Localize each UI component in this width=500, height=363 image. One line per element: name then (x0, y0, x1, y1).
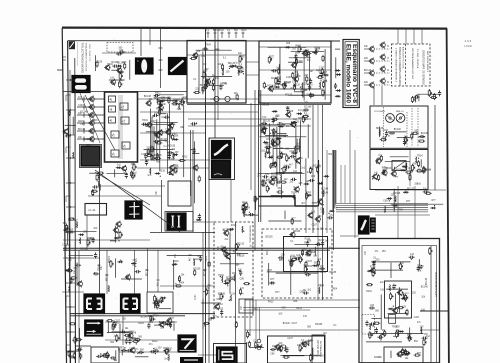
svg-text:C.I. 884 - 02 REV A: C.I. 884 - 02 REV A (416, 49, 419, 69)
svg-text:TR04: TR04 (213, 78, 219, 80)
svg-text:C89: C89 (208, 319, 213, 321)
svg-text:15V: 15V (281, 255, 286, 257)
svg-text:TR04: TR04 (398, 209, 404, 211)
svg-text:BD135: BD135 (266, 237, 274, 239)
svg-text:R216: R216 (241, 30, 247, 32)
svg-text:BD135: BD135 (168, 145, 176, 147)
svg-text:R77: R77 (406, 201, 411, 203)
svg-text:C89: C89 (304, 272, 309, 274)
svg-text:BD135: BD135 (284, 82, 292, 84)
svg-text:R77: R77 (291, 218, 296, 220)
svg-text:R216: R216 (148, 316, 154, 318)
svg-text:C107: C107 (267, 270, 273, 272)
svg-text:BC148: BC148 (320, 81, 328, 83)
svg-text:BC148: BC148 (426, 277, 428, 285)
svg-text:R412: R412 (155, 93, 161, 95)
svg-text:R77: R77 (270, 279, 275, 281)
svg-text:BC148: BC148 (271, 78, 279, 80)
svg-text:BC148: BC148 (394, 129, 402, 131)
svg-text:TR04: TR04 (179, 283, 185, 285)
svg-text:BD135: BD135 (262, 105, 270, 107)
svg-text:C89: C89 (174, 135, 179, 137)
svg-text:TR04: TR04 (205, 45, 211, 47)
svg-text:BC148: BC148 (144, 96, 152, 98)
svg-text:15V: 15V (253, 341, 258, 343)
svg-text:R216: R216 (370, 267, 376, 269)
svg-text:BD135: BD135 (376, 128, 384, 130)
svg-text:R77: R77 (417, 353, 422, 355)
svg-text:C89: C89 (177, 109, 182, 111)
svg-text:1660 - ELBE TVC: 1660 - ELBE TVC (88, 44, 90, 62)
svg-text:R77: R77 (266, 181, 271, 183)
svg-text:C89: C89 (270, 354, 275, 356)
svg-text:1-03-60: 1-03-60 (464, 46, 473, 48)
svg-text:C107: C107 (150, 121, 156, 123)
svg-text:C: C (137, 60, 139, 63)
svg-text:1 VIDEO 2 SONIDO INTERCOM 3: 1 VIDEO 2 SONIDO INTERCOM 3 (395, 48, 397, 83)
svg-text:R216: R216 (271, 141, 277, 143)
svg-text:SINCRONISMOS VERT.: SINCRONISMOS VERT. (434, 272, 436, 297)
svg-text:BD135: BD135 (393, 193, 401, 195)
svg-text:C89: C89 (293, 301, 298, 303)
svg-text:R412: R412 (268, 301, 274, 303)
svg-text:C107: C107 (62, 244, 68, 246)
svg-text:TR04: TR04 (417, 155, 423, 157)
svg-text:BD135: BD135 (263, 120, 271, 122)
svg-text:R77: R77 (304, 243, 309, 245)
svg-text:REF 1660-B SERIE 2: REF 1660-B SERIE 2 (426, 51, 428, 73)
svg-text:R216: R216 (97, 61, 103, 63)
svg-text:BC148: BC148 (304, 106, 312, 108)
svg-text:R216: R216 (138, 323, 144, 325)
svg-text:C89: C89 (407, 174, 412, 176)
svg-text:TR04: TR04 (153, 316, 159, 318)
svg-text:C107: C107 (78, 105, 84, 107)
svg-text:15V: 15V (175, 152, 180, 154)
svg-text:BC148: BC148 (418, 137, 426, 139)
svg-text:TR04: TR04 (291, 193, 297, 195)
svg-text:R412: R412 (281, 135, 287, 137)
svg-text:R216: R216 (159, 170, 165, 172)
svg-text:R77: R77 (432, 200, 437, 202)
svg-text:C107: C107 (286, 77, 292, 79)
svg-text:BD135: BD135 (313, 165, 321, 167)
svg-text:15V: 15V (292, 81, 297, 83)
svg-text:R412: R412 (218, 308, 224, 310)
svg-text:BC148: BC148 (205, 268, 207, 276)
svg-text:R412: R412 (133, 338, 139, 340)
svg-text:C107: C107 (289, 151, 295, 153)
svg-text:ANTENA UHF: ANTENA UHF (316, 340, 319, 355)
svg-text:SINTONIA CANALES UHF VHF: SINTONIA CANALES UHF VHF (411, 48, 414, 80)
svg-text:15V: 15V (167, 97, 172, 99)
svg-text:TR04: TR04 (332, 289, 338, 291)
svg-text:BC148: BC148 (70, 258, 72, 266)
svg-text:C107: C107 (312, 224, 318, 226)
svg-text:R216: R216 (366, 291, 372, 293)
svg-text:15V: 15V (382, 251, 387, 253)
svg-text:R412: R412 (396, 169, 402, 171)
svg-text:C89: C89 (170, 159, 175, 161)
svg-text:15V: 15V (402, 306, 407, 308)
svg-text:TR04: TR04 (142, 120, 148, 122)
svg-text:15V: 15V (265, 174, 270, 176)
svg-text:R412: R412 (193, 259, 199, 261)
svg-text:BC148: BC148 (223, 230, 231, 232)
svg-text:BC148: BC148 (421, 287, 429, 289)
svg-text:R216: R216 (314, 48, 320, 50)
svg-text:BD135: BD135 (315, 324, 323, 326)
svg-text:15V: 15V (328, 248, 333, 250)
svg-text:R412: R412 (168, 129, 174, 131)
svg-text:TR04: TR04 (318, 286, 324, 288)
svg-text:TOMAS DE CONEXION EXTERIOR: TOMAS DE CONEXION EXTERIOR (398, 47, 401, 86)
svg-text:A B C D E F G H I J K: A B C D E F G H I J K (402, 47, 405, 69)
svg-text:TR04: TR04 (298, 118, 304, 120)
svg-text:CIRCUITOS IMPR. DE SERVICIO: CIRCUITOS IMPR. DE SERVICIO (422, 50, 424, 85)
svg-text:TEMPORIZADOR: TEMPORIZADOR (249, 225, 252, 243)
svg-text:BC148: BC148 (80, 112, 88, 114)
svg-text:C89: C89 (126, 338, 131, 340)
svg-text:BD135: BD135 (329, 272, 337, 274)
svg-text:C89: C89 (161, 97, 166, 99)
svg-text:15V: 15V (205, 69, 210, 71)
svg-text:R216: R216 (231, 225, 237, 227)
svg-text:R216: R216 (319, 240, 325, 242)
svg-text:R412: R412 (87, 145, 93, 147)
svg-text:R412: R412 (152, 341, 158, 343)
svg-text:BD135: BD135 (80, 249, 88, 251)
svg-text:BD135: BD135 (285, 95, 293, 97)
svg-text:C89: C89 (311, 176, 316, 178)
svg-text:R216: R216 (78, 121, 84, 123)
svg-text:C107: C107 (307, 261, 313, 263)
svg-text:BC148: BC148 (321, 193, 329, 195)
svg-text:TV.ELECTRONICA MADRID: TV.ELECTRONICA MADRID (81, 43, 84, 74)
svg-text:BC148: BC148 (218, 293, 226, 295)
svg-text:R216: R216 (173, 261, 179, 263)
svg-text:C89: C89 (281, 307, 286, 309)
svg-text:15V: 15V (262, 117, 267, 119)
svg-text:J L 41: J L 41 (88, 208, 96, 212)
svg-text:R77: R77 (270, 57, 275, 59)
svg-text:R77: R77 (405, 190, 410, 192)
svg-text:C89: C89 (298, 158, 303, 160)
svg-text:C89: C89 (289, 111, 294, 113)
svg-text:R412: R412 (217, 304, 223, 306)
svg-text:BD135: BD135 (293, 231, 301, 233)
svg-text:C107: C107 (414, 317, 420, 319)
svg-text:BC148: BC148 (141, 316, 149, 318)
svg-text:BD135: BD135 (147, 268, 149, 276)
svg-text:VOLUMEN: VOLUMEN (374, 111, 385, 113)
svg-text:TR04: TR04 (99, 265, 101, 271)
svg-text:TR04: TR04 (320, 272, 326, 274)
svg-text:C89: C89 (240, 279, 245, 281)
svg-text:R412: R412 (296, 45, 302, 47)
svg-text:C89: C89 (300, 291, 305, 293)
svg-text:BD135: BD135 (107, 273, 109, 281)
svg-text:R216: R216 (92, 120, 98, 122)
svg-text:R216: R216 (267, 249, 269, 255)
svg-text:C107: C107 (207, 78, 213, 80)
svg-text:C107: C107 (141, 154, 147, 156)
svg-text:R77: R77 (307, 95, 312, 97)
svg-text:BC148: BC148 (308, 252, 316, 254)
svg-text:R216: R216 (307, 84, 313, 86)
svg-text:TR04: TR04 (206, 256, 208, 262)
svg-text:BD135: BD135 (300, 90, 308, 92)
svg-text:C107: C107 (287, 338, 293, 340)
svg-text:R77: R77 (183, 97, 188, 99)
svg-text:C89: C89 (80, 124, 85, 126)
svg-text:BC148: BC148 (129, 332, 137, 334)
svg-text:15V: 15V (158, 347, 163, 349)
svg-text:BC148: BC148 (161, 139, 169, 141)
svg-text:15V: 15V (420, 327, 425, 329)
svg-text:BC148: BC148 (283, 323, 291, 325)
svg-text:R412: R412 (275, 173, 281, 175)
svg-text:TR04: TR04 (368, 335, 374, 337)
svg-text:15V: 15V (231, 294, 236, 296)
svg-text:C107: C107 (169, 318, 175, 320)
svg-text:ESQUEMARIOS TECNICOS: ESQUEMARIOS TECNICOS (85, 43, 88, 72)
svg-text:C89: C89 (201, 56, 206, 58)
svg-text:BC148: BC148 (111, 62, 119, 64)
svg-text:C89: C89 (286, 43, 291, 45)
svg-text:R412: R412 (157, 101, 163, 103)
svg-text:C89: C89 (383, 201, 388, 203)
svg-text:R412: R412 (296, 308, 302, 310)
svg-text:BC148: BC148 (78, 129, 86, 131)
svg-text:BD135: BD135 (293, 85, 301, 87)
svg-text:15V: 15V (333, 207, 338, 209)
svg-text:15V: 15V (380, 289, 385, 291)
svg-text:15V: 15V (87, 238, 92, 240)
svg-text:R77: R77 (275, 292, 280, 294)
svg-text:BD135: BD135 (193, 269, 201, 271)
svg-text:ELBE, modelo 1660: ELBE, modelo 1660 (344, 44, 351, 104)
svg-text:BC148: BC148 (321, 189, 329, 191)
svg-text:BD135: BD135 (317, 356, 325, 358)
svg-text:BC148: BC148 (364, 70, 372, 72)
svg-text:BD135: BD135 (237, 244, 245, 246)
svg-text:C107: C107 (195, 294, 197, 300)
svg-text:C107: C107 (292, 323, 298, 325)
svg-text:15V: 15V (396, 327, 401, 329)
svg-text:15V: 15V (131, 164, 136, 166)
svg-text:BC148: BC148 (421, 133, 429, 135)
svg-text:R216: R216 (305, 238, 311, 240)
svg-text:BD135: BD135 (118, 349, 126, 351)
svg-text:R412: R412 (114, 323, 120, 325)
svg-text:-1 6,3: -1 6,3 (464, 39, 472, 43)
svg-text:C107: C107 (383, 130, 389, 132)
svg-text:TR04: TR04 (218, 275, 224, 277)
svg-text:R412: R412 (182, 157, 188, 159)
